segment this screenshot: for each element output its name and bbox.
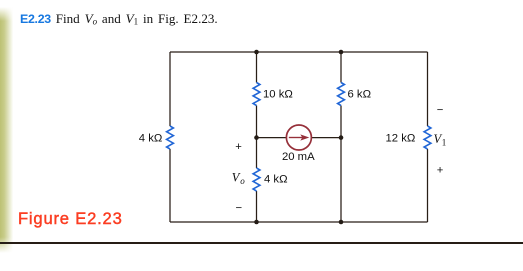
resistor 10 kOhm xyxy=(253,83,260,106)
svg-text:+: + xyxy=(235,141,242,153)
label V1 xyxy=(434,132,447,148)
problem statement E2.23 xyxy=(20,11,218,27)
node mid-1 xyxy=(254,135,259,140)
figure caption xyxy=(18,209,123,229)
svg-text:6 kΩ: 6 kΩ xyxy=(348,88,372,100)
wire branch 1 xyxy=(256,52,258,222)
svg-text:−: − xyxy=(235,202,242,214)
resistor 4 kOhm middle xyxy=(253,168,260,191)
resistor 6 kOhm xyxy=(338,83,345,106)
label 20 mA xyxy=(282,151,315,163)
wire middle (current source) xyxy=(257,137,342,139)
resistor 4 kOhm left xyxy=(167,126,174,149)
current source 20 mA xyxy=(286,125,311,150)
svg-text:10 kΩ: 10 kΩ xyxy=(263,88,293,100)
svg-text:12 kΩ: 12 kΩ xyxy=(385,132,415,144)
node bottom-1 xyxy=(254,220,259,225)
label plus Vo xyxy=(235,141,242,153)
svg-text:1: 1 xyxy=(442,138,447,148)
label 4 kOhm left xyxy=(139,132,163,144)
node top-1 xyxy=(254,50,259,55)
svg-text:20 mA: 20 mA xyxy=(282,151,315,163)
page edge gradient bar xyxy=(0,7,14,253)
label minus V1 xyxy=(437,105,444,117)
label minus Vo xyxy=(235,202,242,214)
label 4 kOhm middle xyxy=(264,174,288,186)
svg-text:4 kΩ: 4 kΩ xyxy=(139,132,163,144)
label 10 kOhm xyxy=(263,88,293,100)
wire branch 2 xyxy=(340,52,342,222)
node top-2 xyxy=(339,50,344,55)
label 6 kOhm xyxy=(348,88,372,100)
svg-text:o: o xyxy=(240,176,245,186)
svg-text:−: − xyxy=(437,105,444,117)
node bottom-2 xyxy=(339,220,344,225)
svg-text:+: + xyxy=(437,164,444,176)
wire outer loop xyxy=(170,52,428,222)
bottom rule xyxy=(0,242,523,244)
resistor 12 kOhm xyxy=(424,126,431,149)
svg-text:4 kΩ: 4 kΩ xyxy=(264,174,288,186)
label Vo xyxy=(232,170,245,186)
label 12 kOhm xyxy=(385,132,415,144)
node mid-2 xyxy=(339,135,344,140)
label plus V1 xyxy=(437,164,444,176)
